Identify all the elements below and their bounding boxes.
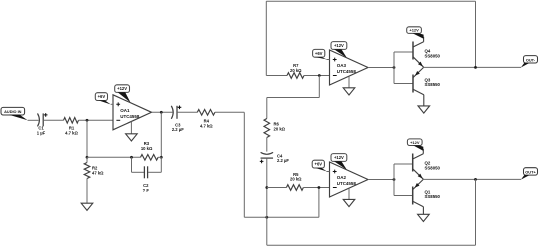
wire [267,187,287,189]
wire [304,75,330,77]
junction [160,156,163,159]
wire [424,66,521,68]
resistor R3 [141,141,159,160]
svg-text:+6V: +6V [315,162,323,167]
resistor R1 [64,118,79,136]
svg-text:AUDIO IN: AUDIO IN [4,110,22,114]
wire [266,138,268,152]
wire [318,188,320,218]
svg-text:? F: ? F [143,188,150,193]
wire [243,112,245,217]
svg-text:20 kΩ: 20 kΩ [290,177,302,182]
power +6V (OA2) [312,160,327,171]
junction [130,156,133,159]
ground (OA1) [126,122,138,142]
ground (OA3) [343,76,355,95]
capacitor C3 [171,106,184,133]
wire [368,179,394,181]
junction [160,111,163,114]
power +12V (OA1) [115,85,131,103]
wire [86,179,88,204]
wire (base splitter) [394,52,413,84]
power +6V (OA1) [95,93,111,105]
wire [266,75,287,77]
transistor Q1 [413,179,441,214]
wire [327,171,330,173]
svg-text:2.2 µF: 2.2 µF [277,158,289,163]
svg-text:1 µF: 1 µF [37,130,46,135]
power +12V (OA3) [331,42,347,58]
svg-text:20 kΩ: 20 kΩ [290,68,302,73]
svg-text:4.7 kΩ: 4.7 kΩ [200,124,213,129]
wire [86,157,88,162]
wire [148,157,161,172]
ground [81,203,93,210]
power +12V (Q2) [407,139,423,151]
wire [215,111,244,113]
wire [177,111,197,113]
wire [87,156,141,158]
svg-text:+12V: +12V [334,43,344,48]
power +12V (OA2) [331,154,347,170]
wire [244,216,319,218]
transistor Q4 [413,37,441,67]
resistor R6 [264,119,286,138]
svg-text:47 kΩ: 47 kΩ [92,170,104,175]
wire [266,98,268,119]
wire [111,103,113,105]
node AUDIO IN [1,107,28,120]
svg-text:OA3: OA3 [337,63,347,68]
wire [266,158,268,245]
junction [393,66,396,69]
wire [28,119,39,121]
junction [318,74,321,77]
junction [265,186,268,189]
op-amp OA3 [330,50,369,85]
node OUT- [521,56,538,68]
power +6V (OA3) [313,49,327,59]
svg-text:OUT-: OUT- [526,57,536,62]
ground (Q3) [418,106,430,113]
svg-text:OUT+: OUT+ [525,169,536,174]
svg-text:+12V: +12V [410,140,420,145]
ground (OA2) [343,188,355,206]
junction [265,216,268,219]
junction [318,186,321,189]
wire [267,76,320,98]
svg-text:SS8050: SS8050 [425,53,441,58]
svg-text:10 kΩ: 10 kΩ [141,146,153,151]
wire [79,119,114,121]
resistor R5 [286,172,303,190]
op-amp OA1 [113,95,152,130]
wire [160,112,162,157]
svg-text:UTC4558: UTC4558 [337,69,357,74]
capacitor C4 [260,152,290,163]
junction [86,119,89,122]
junction [474,66,477,69]
junction [86,156,89,159]
wire [43,119,63,121]
junction [393,178,396,181]
wire (base splitter) [394,164,413,196]
resistor R4 [197,110,215,129]
wire [86,120,88,157]
wire (bottom feedback) [267,179,476,245]
resistor R7 [287,63,304,78]
svg-text:OA1: OA1 [120,108,130,113]
node OUT+ [521,168,538,180]
svg-text:SS8050: SS8050 [425,165,441,170]
svg-text:2.2 µF: 2.2 µF [172,127,184,132]
junction [474,178,477,181]
wire [327,59,330,61]
svg-text:OA2: OA2 [337,175,347,180]
power +12V (Q4) [407,27,424,39]
svg-text:UTC4558: UTC4558 [337,181,357,186]
svg-text:SS8550: SS8550 [425,82,441,87]
wire [152,111,173,113]
wire [132,157,145,172]
wire (top feedback) [266,1,475,75]
svg-text:+12V: +12V [117,86,127,91]
ground (Q1) [418,214,430,221]
resistor R2 [84,163,104,179]
wire [158,156,161,158]
svg-text:20 kΩ: 20 kΩ [274,126,286,131]
wire [423,178,521,180]
svg-text:SS8550: SS8550 [425,194,441,199]
svg-text:+6V: +6V [315,51,323,56]
capacitor C1 [37,113,48,135]
capacitor C2 [143,166,150,193]
svg-text:+12V: +12V [334,155,344,160]
op-amp OA2 [330,162,369,197]
svg-text:UTC4558: UTC4558 [120,114,140,119]
transistor Q2 [413,149,441,179]
svg-text:+6V: +6V [98,94,106,99]
wire [368,67,394,69]
transistor Q3 [413,67,441,106]
svg-text:+12V: +12V [409,28,419,33]
wire [303,187,329,189]
svg-text:4.7 kΩ: 4.7 kΩ [65,130,78,135]
